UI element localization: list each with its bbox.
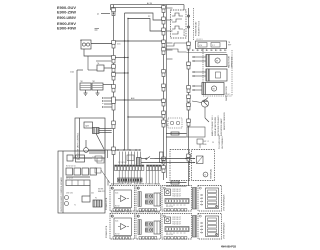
- svg-text:IC01: IC01: [115, 221, 118, 223]
- svg-text:1C5: 1C5: [117, 44, 120, 46]
- node labels: [117, 16, 150, 100]
- connector CN4: [112, 85, 116, 93]
- connector CN24: [187, 103, 191, 110]
- connector CN15: [162, 99, 166, 106]
- connector strip A: [193, 188, 197, 210]
- connector CN7: [112, 147, 116, 155]
- dashed box compressor area: [170, 150, 190, 181]
- svg-text:1 2 3: 1 2 3: [92, 157, 96, 159]
- svg-text:A06: A06: [131, 97, 134, 100]
- diode D4: [95, 168, 101, 173]
- note text bottom left: [98, 189, 105, 194]
- wire junction row y150: [116, 149, 141, 150]
- wire drop x77: [70, 70, 83, 108]
- module AMPB1: [110, 214, 135, 240]
- terminal block TB2: [92, 83, 103, 90]
- svg-text:R12 C4 D7: R12 C4 D7: [173, 196, 181, 198]
- svg-text:PCB ASSY NO.2: PCB ASSY NO.2: [198, 20, 201, 36]
- rotated row label A: [106, 197, 108, 210]
- connector CN2: [112, 41, 116, 49]
- wire comb drops: [119, 171, 158, 184]
- svg-text:1 2 3 4 5: 1 2 3 4 5: [224, 94, 230, 96]
- connector CN18: [162, 157, 166, 164]
- switch SW3: [146, 157, 155, 160]
- svg-text:DISPLAY/RECEIVER: DISPLAY/RECEIVER: [214, 116, 217, 136]
- module PSUB2: [136, 214, 161, 240]
- transistor Q1: [192, 98, 209, 123]
- svg-text:SWING MOTOR: SWING MOTOR: [226, 86, 228, 101]
- svg-text:Q1 Q2 D1: Q1 Q2 D1: [66, 178, 73, 180]
- wire pair y135: [166, 134, 187, 138]
- misc labels outdoor box: [66, 166, 97, 207]
- motor M3 swing: [192, 83, 224, 95]
- dashed box sensor: [168, 118, 182, 128]
- wire V x128: [127, 19, 129, 151]
- svg-text:FAN MOTOR: FAN MOTOR: [228, 56, 231, 68]
- dashed pcb boundary: [203, 50, 232, 96]
- relay RY3: [127, 155, 134, 161]
- svg-text:TERMINAL: TERMINAL: [210, 168, 213, 179]
- rotated label M1: [228, 56, 234, 68]
- svg-text:0 0 0 0 0 0: 0 0 0 0 0 0: [166, 206, 173, 208]
- wire H y117: [127, 116, 161, 117]
- svg-text:R1 R2 C5 C6: R1 R2 C5 C6: [66, 166, 76, 168]
- svg-text:REMOTE SENSOR: REMOTE SENSOR: [224, 112, 226, 130]
- wire H y41: [116, 40, 162, 41]
- module PSUA2: [136, 186, 161, 212]
- connector CN11: [162, 40, 166, 47]
- connector comb B: [147, 165, 161, 171]
- svg-text:R1 R2: R1 R2: [115, 234, 120, 236]
- dashed line x186: [193, 8, 195, 40]
- lamp LP1: [84, 140, 89, 152]
- connector CN8: [162, 6, 166, 13]
- svg-text:POWER PCB: POWER PCB: [106, 197, 108, 210]
- resistor row: [66, 180, 90, 186]
- connector CN12: [162, 48, 166, 55]
- wire bus B1 vertical: [111, 5, 114, 184]
- capacitor C4: [197, 139, 203, 148]
- label TB: [80, 40, 100, 83]
- terminal bar TB3: [118, 178, 143, 182]
- wire drops to comb: [120, 152, 141, 165]
- svg-text:E900-GUV: E900-GUV: [57, 6, 77, 10]
- wire arrow in 2: [102, 100, 112, 102]
- svg-text:R12 C4 D7: R12 C4 D7: [173, 224, 181, 226]
- svg-text:0 0 0 0 0 0: 0 0 0 0 0 0: [166, 234, 173, 236]
- svg-text:OUTDOOR UNIT CONTROL BOARD: OUTDOOR UNIT CONTROL BOARD: [60, 177, 63, 212]
- header text A: [111, 183, 161, 186]
- wire diagonal: [96, 134, 104, 150]
- connector strip B: [193, 216, 197, 238]
- ground G1: [84, 90, 88, 95]
- capacitor C2: [65, 202, 69, 206]
- svg-text:C|Θ: C|Θ: [85, 125, 89, 127]
- resistor R7 vertical: [160, 152, 164, 163]
- wire H y100: [116, 99, 162, 100]
- wire H y73: [116, 72, 129, 73]
- terminal strip TS1: [196, 41, 227, 49]
- connector CN2c: [112, 73, 116, 81]
- relay RY1: [84, 122, 93, 128]
- rotated label outdoor: [60, 177, 63, 212]
- dashed drop x203: [202, 49, 204, 86]
- connector CN3: [112, 56, 116, 64]
- connector CN10: [162, 28, 166, 35]
- relay box dashed K1: [171, 10, 187, 38]
- label above top wire: [147, 2, 153, 5]
- svg-text:F2: F2: [95, 198, 97, 200]
- connector CN1: [112, 8, 116, 16]
- svg-text:E900-E9V: E900-E9V: [57, 22, 77, 26]
- wire bus B2 vertical: [164, 5, 167, 180]
- svg-text:REF: REF: [228, 45, 231, 47]
- wire arrow in 4: [102, 106, 112, 108]
- IC block row: [66, 168, 97, 175]
- wire run to right: [141, 158, 195, 163]
- model list labels: [57, 6, 77, 31]
- label 123: [92, 157, 96, 159]
- svg-text:LIVE TERMINALS: LIVE TERMINALS: [223, 222, 226, 239]
- rotated label terminals B: [223, 222, 226, 239]
- wire diagonal drop: [101, 170, 110, 183]
- svg-text:T1: T1: [74, 205, 76, 207]
- connector CN22: [187, 86, 191, 93]
- wire inside outdoor box: [66, 158, 92, 196]
- svg-text:4M4-909-P1B: 4M4-909-P1B: [221, 245, 237, 249]
- wire stub x107: [107, 150, 109, 158]
- rotated row label B: [106, 225, 108, 238]
- connector CN19: [162, 166, 166, 173]
- outdoor control box: [58, 151, 105, 213]
- svg-text:R1 R2: R1 R2: [115, 206, 120, 208]
- note arrow left: [97, 13, 110, 16]
- connector CN5: [112, 97, 116, 110]
- svg-text:CN1 CN2: CN1 CN2: [66, 193, 73, 195]
- wire V x122: [124, 13, 126, 150]
- connector CN17: [162, 120, 166, 127]
- connector tail arrow: [113, 12, 115, 16]
- fuse box F1: [81, 40, 91, 49]
- module corner marks row 185.5: [111, 187, 201, 205]
- control box outline: [187, 127, 205, 137]
- connector CN14: [162, 84, 166, 91]
- part number label: [221, 245, 237, 249]
- module corner marks row 213.5: [111, 215, 201, 233]
- relay RY2: [82, 196, 90, 202]
- connector CN16: [162, 111, 166, 118]
- dashed box relay K2: [192, 150, 215, 181]
- svg-text:E900-UB9V: E900-UB9V: [57, 16, 77, 20]
- svg-text:CN7 1 2: CN7 1 2: [203, 141, 209, 143]
- wire arrow in 3: [102, 102, 112, 105]
- rotated labels lower right: [219, 135, 224, 149]
- header text B: [111, 211, 161, 214]
- svg-text:SW: SW: [77, 159, 80, 161]
- rotated label M3: [226, 86, 228, 101]
- varistor V1: [97, 158, 104, 163]
- svg-text:1 2: 1 2: [212, 45, 215, 47]
- svg-text:M: M: [216, 61, 218, 63]
- wire stubs at B2: [167, 8, 173, 59]
- svg-text:LIVE TERMINALS: LIVE TERMINALS: [223, 194, 226, 211]
- wire bus to power block: [108, 180, 114, 186]
- diode D3: [95, 156, 102, 161]
- svg-text:E900-Z9W: E900-Z9W: [57, 10, 77, 14]
- comb labels: [118, 162, 127, 164]
- wire steps to B3: [166, 43, 187, 52]
- svg-text:MAIN PCB ASSY NO.1: MAIN PCB ASSY NO.1: [211, 114, 214, 136]
- thermistor TH1: [97, 65, 104, 71]
- wire top bus: [111, 5, 185, 10]
- module IOA4: [198, 186, 222, 212]
- switch SW2: [76, 155, 85, 162]
- wire arrow in 1: [102, 97, 112, 99]
- wire F1 to bus: [84, 44, 112, 71]
- module AMPA1: [110, 186, 135, 212]
- module IOB4: [198, 214, 222, 240]
- labels terminal strip: [196, 39, 231, 46]
- connector CN9: [162, 17, 166, 24]
- motor M1 fan: [192, 55, 227, 67]
- rotated labels relay: [184, 20, 201, 36]
- arrow row under TS1: [187, 49, 227, 52]
- module CTRLA3: [162, 186, 192, 212]
- svg-text:RECEIVER PCB ASSY: RECEIVER PCB ASSY: [217, 115, 220, 136]
- reference marks: [95, 28, 100, 30]
- svg-text:INDOOR UNIT CONTROL: INDOOR UNIT CONTROL: [78, 132, 80, 157]
- svg-text:IC01: IC01: [115, 193, 118, 195]
- resistor R6: [171, 181, 179, 184]
- resistor R5: [171, 132, 179, 135]
- svg-text:M: M: [213, 89, 215, 91]
- svg-text:P2: P2: [148, 16, 150, 18]
- connector CN26: [187, 154, 191, 161]
- connector CN21: [187, 62, 191, 69]
- wire lamp to bus: [88, 150, 111, 153]
- capacitor C1: [65, 196, 69, 200]
- svg-text:AC IN: AC IN: [147, 2, 153, 5]
- connector CN23: [187, 95, 191, 102]
- wire H y30: [127, 18, 161, 31]
- switch SW1: [67, 155, 73, 161]
- pin numbers text: [203, 94, 230, 146]
- connector comb A: [115, 165, 144, 171]
- svg-text:TO OUTDOOR: TO OUTDOOR: [219, 135, 221, 149]
- wire bus B3 vertical: [187, 8, 189, 186]
- wire pair y184: [166, 183, 187, 187]
- wire H y58: [116, 57, 129, 58]
- arrow heads run: [194, 158, 196, 164]
- connector CN6: [112, 121, 116, 129]
- connector CN2b: [112, 65, 116, 73]
- wire CNA to bus: [99, 129, 112, 133]
- svg-text:SEE P.2: SEE P.2: [98, 191, 105, 193]
- connector CNA: [93, 128, 100, 134]
- wire arrowheads at bus: [192, 56, 194, 91]
- connector CNB: [93, 200, 102, 207]
- svg-text:POWER PCB: POWER PCB: [106, 225, 108, 238]
- rotated labels mid right: [211, 112, 226, 136]
- motor M2: [192, 69, 227, 81]
- svg-text:INDICATION LAMP: INDICATION LAMP: [220, 118, 223, 136]
- wire stub sensor: [167, 121, 169, 125]
- wire TB to bus: [103, 84, 112, 86]
- connector CNC: [137, 158, 142, 166]
- rotated label indoor: [78, 132, 80, 157]
- rotated label K2: [210, 168, 213, 179]
- svg-text:POWER RELAY: POWER RELAY: [195, 21, 198, 36]
- svg-text:UNIT WIRING: UNIT WIRING: [222, 136, 224, 149]
- svg-text:TB: TB: [228, 42, 230, 44]
- svg-text:RY PCB: RY PCB: [184, 28, 186, 36]
- rotated label terminals A: [223, 194, 226, 211]
- module CTRLB3: [162, 214, 192, 240]
- wire TH1 to bus: [104, 67, 112, 69]
- connector CN20: [187, 42, 191, 49]
- connector CN25: [187, 119, 191, 126]
- terminal block TB1: [80, 83, 91, 90]
- connector CN13: [162, 70, 166, 77]
- svg-text:ZD1: ZD1: [91, 193, 94, 195]
- wire H y19: [125, 13, 162, 20]
- indoor control box: [75, 118, 105, 158]
- ground G2: [96, 90, 100, 95]
- svg-text:1 2 3 4 5 6 7: 1 2 3 4 5 6 7: [118, 162, 127, 164]
- svg-text:E900-F9W: E900-F9W: [57, 27, 77, 31]
